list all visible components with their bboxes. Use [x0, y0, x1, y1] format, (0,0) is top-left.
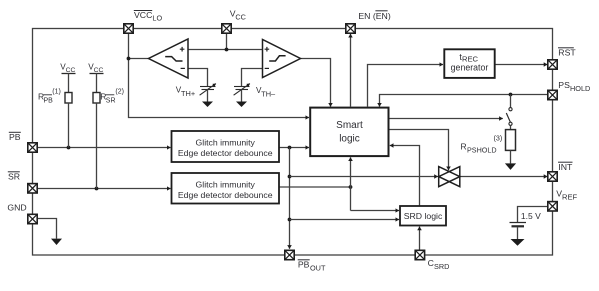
wire C_TH- to ground — [241, 90, 243, 102]
pin PS_HOLD — [548, 90, 557, 99]
svg-text:PS: PS — [558, 80, 570, 90]
label R_PSHOLD (3) — [461, 134, 503, 155]
pin PB — [28, 143, 37, 152]
wire switch to R_PSHOLD — [510, 126, 512, 130]
svg-text:R: R — [461, 142, 467, 152]
block glitch immunity 2 — [172, 173, 280, 204]
switch S1 lever — [506, 113, 510, 122]
svg-text:Glitch immunity: Glitch immunity — [196, 137, 256, 147]
node junction R_PB / PB line — [67, 146, 71, 150]
wire EN from Smart logic up to EN pin — [350, 34, 352, 107]
pin V_REF — [548, 202, 557, 211]
svg-text:logic: logic — [339, 133, 360, 144]
wire comparator A output to VCC_LO line — [129, 58, 149, 60]
svg-text:(3): (3) — [494, 134, 503, 143]
VCC supply tick for R_PB — [62, 73, 76, 75]
wire into SRD logic input 1 — [351, 210, 400, 212]
svg-text:INT: INT — [558, 162, 573, 172]
wire comparator B output into Smart logic top — [301, 59, 331, 107]
label R_SR (2) — [100, 88, 124, 104]
svg-text:VCC: VCC — [134, 10, 152, 20]
block SRD logic — [400, 206, 446, 226]
label SR — [8, 172, 20, 182]
svg-text:(1): (1) — [52, 88, 61, 95]
pin INT — [548, 172, 557, 181]
svg-text:REF: REF — [562, 193, 578, 202]
node junction glitch1 output / PB_OUT branch — [288, 146, 292, 150]
wire R_PSHOLD to ground — [510, 150, 512, 163]
svg-text:(2): (2) — [115, 88, 124, 95]
wire battery to ground — [517, 227, 519, 239]
ground under R_PSHOLD — [505, 163, 516, 170]
resistor R_SR — [93, 93, 100, 104]
svg-text:TH–: TH– — [261, 90, 276, 99]
svg-text:SR: SR — [8, 172, 20, 182]
svg-text:OUT: OUT — [310, 264, 326, 273]
wire comparator A minus input to C_TH+ — [188, 69, 208, 87]
label VCC over R_SR — [88, 63, 103, 74]
node junction R_SR / SR line — [95, 187, 99, 191]
svg-text:PB: PB — [298, 260, 310, 270]
comparator U2 minus sign — [265, 67, 269, 69]
analog switch T1 right triangle — [439, 167, 460, 187]
svg-text:C: C — [428, 258, 434, 268]
svg-text:GND: GND — [7, 203, 26, 213]
VCC supply tick for R_SR — [90, 73, 104, 75]
label PB_OUT — [298, 260, 326, 273]
block glitch immunity 1 — [172, 131, 280, 162]
outer package border — [33, 29, 553, 256]
svg-text:CC: CC — [66, 67, 76, 74]
wire comparator B minus input to C_TH- — [242, 69, 263, 87]
ground under battery — [511, 239, 525, 246]
wire C_TH+ to ground — [207, 90, 209, 102]
label V_TH- — [256, 86, 276, 98]
pin GND — [28, 214, 37, 223]
wire PS_HOLD pin to Smart logic top — [380, 95, 548, 107]
svg-text:PB: PB — [44, 97, 54, 104]
wire R_PB to PB line — [68, 103, 70, 148]
capacitor C_TH- bottom plate — [236, 89, 249, 91]
svg-text:CC: CC — [94, 67, 104, 74]
pin C_SRD — [415, 250, 424, 259]
wire into SRD logic input 2 — [290, 219, 400, 221]
svg-text:HOLD: HOLD — [570, 84, 590, 93]
pin VCC — [222, 24, 231, 33]
label R_PB (1) — [38, 88, 61, 104]
svg-text:CC: CC — [235, 12, 246, 21]
wire SR pin to glitch box 2 — [37, 188, 170, 190]
wire V_REF pin to reference battery — [518, 207, 548, 223]
wire VCC to R_PB — [68, 74, 70, 93]
resistor R_PB — [65, 93, 72, 104]
capacitor C_TH+ bottom plate — [202, 89, 215, 91]
capacitor C_TH+ variable arrow — [200, 84, 216, 96]
svg-text:Edge detector debounce: Edge detector debounce — [178, 148, 273, 158]
wire Smart logic switch control arrow — [390, 118, 503, 120]
svg-text:1.5 V: 1.5 V — [521, 211, 541, 221]
node junction PB_OUT / INT branch — [288, 175, 292, 179]
pin EN — [346, 24, 355, 33]
node junction VCC / plus rail — [225, 48, 229, 52]
comparator U1 hysteresis glyph — [165, 57, 182, 61]
wire VCC pin down to plus rail — [226, 33, 228, 49]
wire glitch box 1 output into Smart logic left — [279, 147, 309, 149]
wire Smart logic to analog switch control — [390, 130, 449, 171]
pin VCC_LO — [124, 24, 133, 33]
label PS_HOLD — [558, 80, 590, 93]
pin RST — [548, 60, 557, 69]
switch S1 bottom contact — [509, 122, 512, 125]
comparator U1 minus sign — [181, 67, 185, 69]
wire GND pin to ground symbol — [37, 219, 56, 239]
ground under GND pin — [51, 239, 62, 245]
wire C_SRD pin up into SRD logic — [419, 227, 421, 251]
comparator U2 plus sign — [265, 47, 270, 52]
label V_REF — [556, 188, 577, 201]
capacitor C_TH+ top plate — [200, 86, 216, 88]
ground under C_TH+ — [202, 102, 213, 108]
svg-text:generator: generator — [451, 62, 489, 72]
svg-text:Smart: Smart — [336, 120, 363, 131]
wire Smart logic to tREC generator input — [368, 65, 444, 107]
svg-text:SRD logic: SRD logic — [404, 211, 443, 221]
node junction PB_OUT / SRD branch — [288, 218, 292, 222]
comparator U2 (VTH) body — [263, 40, 301, 78]
svg-text:SR: SR — [106, 97, 116, 104]
label VCC — [230, 8, 246, 21]
wire PB pin to glitch box 1 — [37, 147, 170, 149]
label C_SRD — [428, 258, 450, 271]
svg-text:EN (EN): EN (EN) — [358, 11, 390, 21]
comparator U1 plus sign — [180, 47, 185, 52]
wire R_SR to SR line — [96, 103, 98, 189]
wire VCC_LO vertical down and right into Smart logic — [129, 33, 310, 117]
pin PB_OUT — [285, 250, 294, 259]
battery 1.5V long plate — [510, 222, 527, 224]
wire up into Smart logic bottom — [350, 157, 352, 210]
label PB — [9, 132, 21, 142]
label RST — [558, 48, 576, 58]
capacitor C_TH- variable arrow — [234, 84, 250, 96]
analog switch T1 left triangle — [439, 167, 460, 187]
label V_TH+ — [176, 86, 195, 99]
wire plus rail between comparators — [188, 49, 263, 51]
node junction VCC_LO / comp output — [127, 57, 131, 61]
svg-text:TH+: TH+ — [181, 89, 195, 98]
comparator U1 (VCC_LO) body — [149, 39, 189, 78]
battery 1.5V short plate — [512, 225, 525, 227]
svg-text:Edge detector debounce: Edge detector debounce — [178, 190, 273, 200]
block Smart logic — [310, 108, 388, 157]
wire analog switch to INT pin — [460, 176, 548, 178]
label EN (EN) — [358, 11, 390, 21]
wire VCC to R_SR — [96, 74, 98, 93]
capacitor C_TH- top plate — [234, 86, 250, 88]
node junction glitch2 output — [349, 185, 353, 189]
node junction PS_HOLD / switch — [509, 93, 513, 97]
svg-text:Glitch immunity: Glitch immunity — [196, 179, 256, 189]
comparator U2 hysteresis glyph — [269, 56, 285, 61]
label VCC_LO — [134, 10, 163, 23]
svg-text:SRD: SRD — [434, 262, 449, 271]
wire PS_HOLD junction down to switch — [510, 95, 512, 108]
label INT — [558, 162, 573, 172]
resistor R_PSHOLD — [506, 130, 516, 151]
ground under C_TH- — [236, 102, 247, 108]
svg-text:LO: LO — [152, 14, 162, 23]
svg-text:PB: PB — [9, 132, 21, 142]
wire SRD logic up into Smart logic right — [390, 146, 420, 207]
svg-text:PSHOLD: PSHOLD — [467, 146, 497, 155]
wire tREC generator output to RST pin — [495, 64, 548, 66]
svg-text:RST: RST — [558, 48, 576, 58]
wire glitch box 2 output — [279, 186, 351, 188]
switch S1 top contact — [509, 108, 512, 111]
wire INT line into analog switch — [290, 176, 438, 178]
label VCC over R_PB — [60, 63, 75, 74]
wire PB_OUT vertical — [289, 148, 291, 249]
pin SR — [28, 184, 37, 193]
block tREC generator — [444, 49, 494, 78]
